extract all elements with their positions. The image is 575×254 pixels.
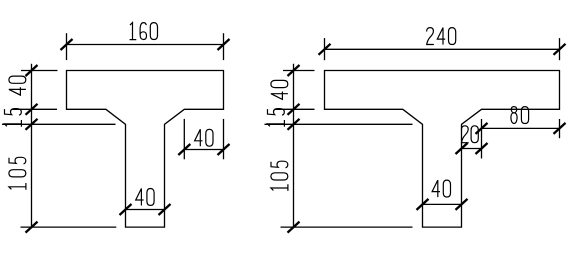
dim 40 web width dimension line right figure [423,203,462,205]
right stack extension line web bottom [281,226,413,228]
dim 160 text [130,23,158,40]
right stack extension line taper bottom [265,123,413,125]
dim 40 web width tick left [120,204,132,215]
dim 40 web width tick right [159,204,171,215]
dim 240 tick right [554,44,566,55]
dim 80 extension line right [559,119,561,138]
dim 105 web height text right figure [271,161,288,191]
right stack extension line flange bottom [275,108,315,110]
dim 40 overhang tick right [218,144,230,155]
dim 40 web width text right figure [432,180,450,197]
dim 40 web width tick left right figure [417,199,429,210]
right stack tick flange top [288,65,300,76]
dim 160 tick right [218,39,230,50]
dim 80 extension line left [481,119,483,159]
right stack tick taper bottom [288,119,300,130]
right stack dimension line [293,64,295,227]
dim 40 flange height text [9,76,26,95]
dim 240 tick left [319,44,331,55]
dim 80 tick left [476,123,488,134]
left stack tick web bottom [26,222,38,233]
dim 80 dimension line [482,127,560,129]
dim 40 overhang extension line left [183,119,185,159]
dim 20 text [461,126,478,143]
left stack tick flange top [26,65,38,76]
left stack extension line taper bottom [2,123,116,125]
dim 240 extension line left [324,38,326,60]
dim 240 extension line right [559,38,561,60]
dim 160 dimension line [67,44,224,46]
dim 160 extension line left [66,33,68,60]
left stack extension line flange bottom [13,108,58,110]
dim 240 text [427,28,456,45]
dim 20 dimension line [462,148,482,150]
dim 40 web width text left figure [136,189,154,206]
dim 15 taper height text right figure [267,109,284,127]
dim 40 overhang text [195,129,213,146]
right stack extension line flange top [283,70,315,72]
dim 80 tick right [554,123,566,134]
dim 15 taper height text [4,109,21,127]
dim 160 extension line right [223,33,225,60]
right stack tick web bottom [288,222,300,233]
dim 40 overhang dimension line [184,149,223,151]
left stack dimension line [31,64,33,227]
dim 160 tick left [61,39,73,50]
dim 20 tick left [456,143,468,154]
dim 240 dimension line [325,48,560,50]
right stack tick flange bottom [288,104,300,115]
left T-beam section outline [67,71,224,228]
right T-beam section outline [325,71,560,228]
dim 80 text [511,107,529,124]
dim 40 overhang tick left [178,144,190,155]
left stack tick taper bottom [26,119,38,130]
dim 20 tick right [476,143,488,154]
dim 40 web width dimension line left figure [126,209,165,211]
dim 40 flange height text right figure [271,80,288,99]
left stack extension line flange top [21,70,58,72]
left stack tick flange bottom [26,104,38,115]
left stack extension line web bottom [21,226,117,228]
dim 40 web width tick right right figure [456,199,468,210]
dim 105 web height text [9,157,26,189]
dim 40 overhang extension line right [223,119,225,159]
